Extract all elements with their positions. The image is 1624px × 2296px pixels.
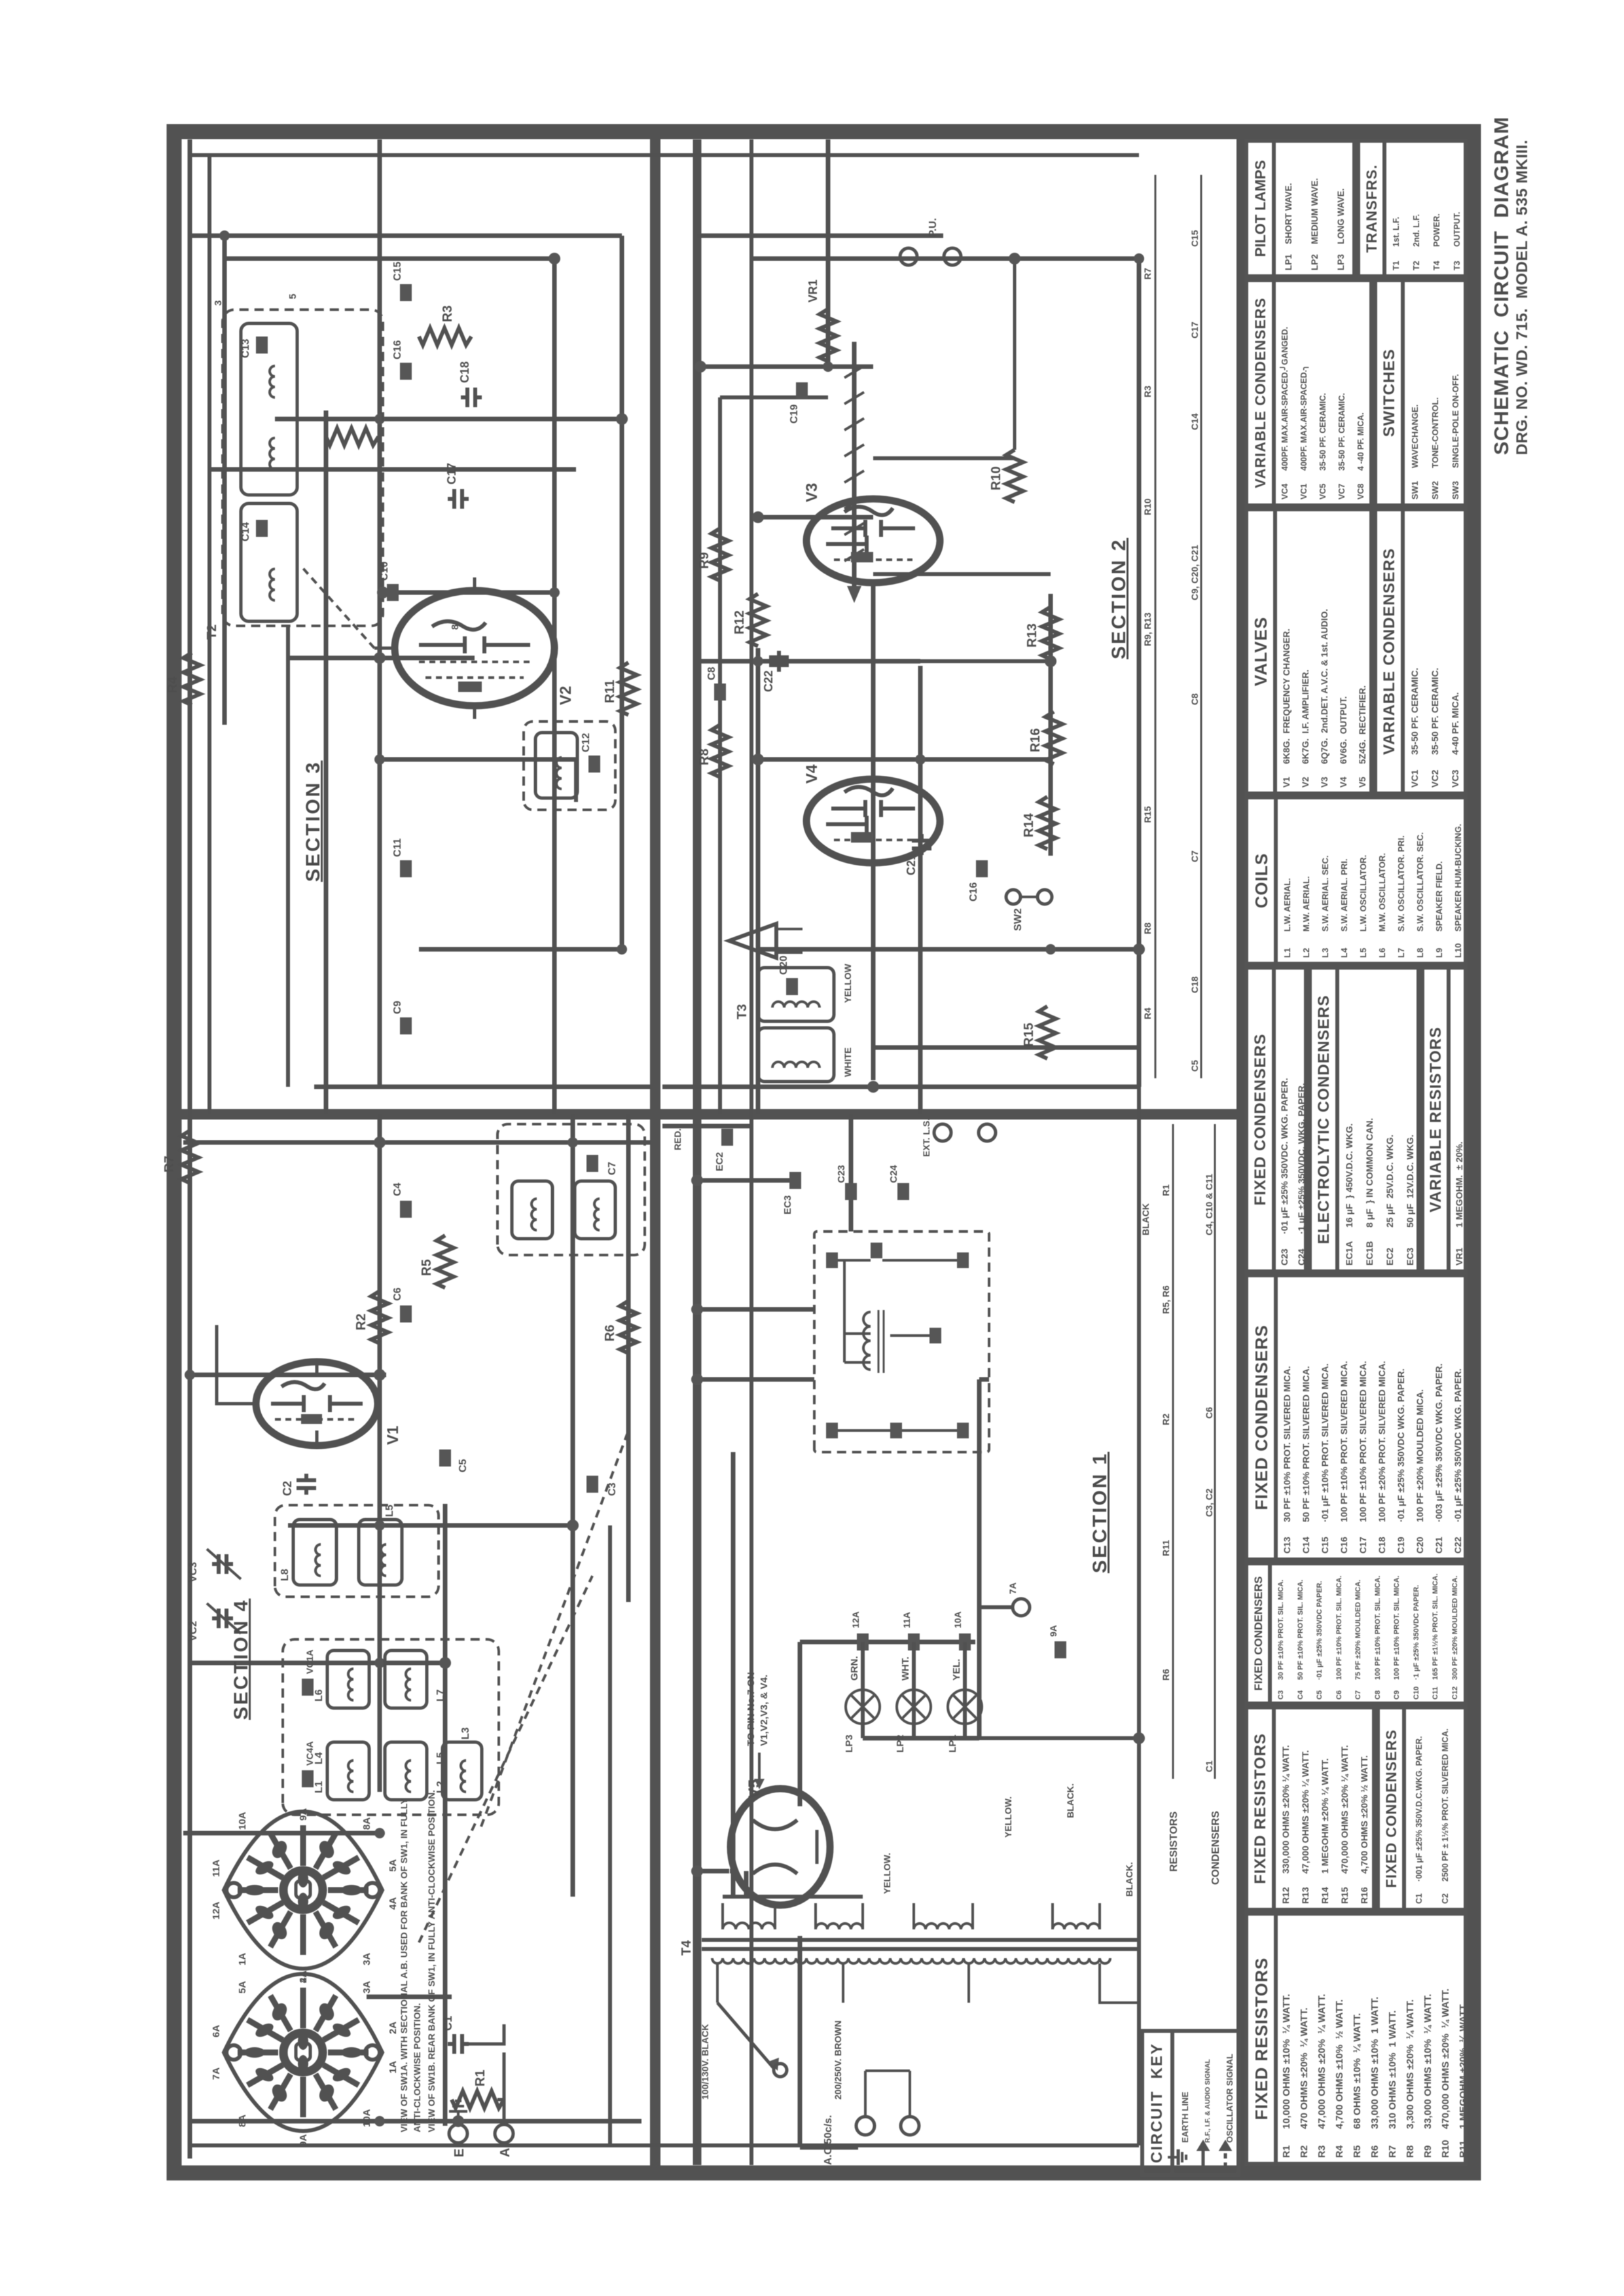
svg-text:C10: C10 bbox=[379, 562, 390, 581]
lamp terminal 12A bbox=[850, 1611, 869, 1650]
wire vertical bbox=[700, 365, 873, 369]
aerial terminal A bbox=[495, 2124, 513, 2157]
wire top rail bbox=[188, 139, 192, 1114]
wire heater rail bbox=[798, 1936, 803, 2147]
wire vertical bbox=[662, 1124, 751, 1129]
resistor R14 bbox=[1022, 797, 1056, 849]
T1A coil box bbox=[535, 733, 577, 798]
svg-text:C18: C18 bbox=[1189, 976, 1200, 993]
svg-text:C4, C10 & C11: C4, C10 & C11 bbox=[1204, 1174, 1214, 1235]
designator index rail resistors left bbox=[1172, 1124, 1174, 1779]
svg-text:C19: C19 bbox=[789, 405, 800, 424]
svg-text:7A: 7A bbox=[1007, 1582, 1018, 1594]
SW1 rear contact pads bbox=[244, 2001, 362, 2104]
svg-text:YELLOW: YELLOW bbox=[842, 963, 853, 1003]
svg-text:C3, C2: C3, C2 bbox=[1204, 1488, 1214, 1517]
wire vertical bbox=[183, 1831, 380, 1836]
wire section2 bottom link bbox=[920, 659, 1051, 663]
outer border frame bbox=[174, 132, 1473, 2173]
svg-text:4A: 4A bbox=[298, 1971, 309, 1983]
svg-text:8: 8 bbox=[450, 625, 461, 630]
parts table: fixed condensers C13-C22 bbox=[1244, 1273, 1468, 1561]
svg-text:R11: R11 bbox=[603, 680, 617, 703]
wire vertical bbox=[873, 1046, 1139, 1050]
svg-text:R3: R3 bbox=[441, 305, 455, 322]
wire left rail section4 bbox=[190, 2143, 1139, 2147]
coil box L8 bbox=[280, 1520, 336, 1585]
divider wire vertical between SECTION 4 and SECTION 3 bbox=[174, 1109, 1240, 1120]
svg-text:200/250V. BROWN: 200/250V. BROWN bbox=[833, 2020, 843, 2100]
wire vertical bbox=[367, 1995, 452, 1999]
parts table: switches bbox=[1373, 278, 1468, 507]
parts table: valves V1-V5 bbox=[1244, 507, 1373, 795]
resistor R8 bbox=[697, 725, 729, 777]
pilot lamp LP3 bbox=[844, 1656, 880, 1753]
wire vertical bbox=[288, 656, 475, 661]
wire transformer to V5 bbox=[744, 1871, 749, 1895]
title block text bbox=[1490, 117, 1513, 455]
svg-text:7A: 7A bbox=[211, 2068, 222, 2080]
wire vertical bbox=[383, 591, 554, 595]
resistor R4 bbox=[166, 653, 200, 705]
tone control switch SW2 bbox=[1006, 890, 1052, 931]
wire anode rail 2 bbox=[718, 397, 722, 1114]
T4 heater winding bbox=[914, 1903, 973, 1929]
svg-text:E: E bbox=[452, 2149, 467, 2157]
circuit key box bbox=[1140, 2029, 1240, 2177]
capacitor C17 bbox=[445, 463, 469, 509]
wire vertical bbox=[288, 1523, 576, 1528]
trimmer condenser VC3 bbox=[188, 1549, 241, 1582]
svg-text:EXT. L.S.: EXT. L.S. bbox=[921, 1118, 931, 1157]
wire screen rail bbox=[620, 236, 624, 949]
svg-text:CONDENSERS: CONDENSERS bbox=[1210, 1811, 1221, 1885]
designator index rail condensers left bbox=[1214, 1124, 1216, 1779]
valve V3 detector bbox=[806, 499, 940, 583]
coil box L6 bbox=[314, 1650, 369, 1708]
wire vertical bbox=[314, 1085, 650, 1089]
oscillator coil assembly 2 (dashed) bbox=[497, 1124, 645, 1255]
earth terminal E bbox=[449, 2101, 467, 2157]
index labels bbox=[1168, 1811, 1221, 1885]
svg-text:VC1A: VC1A bbox=[304, 1650, 315, 1674]
svg-text:1A: 1A bbox=[237, 1953, 248, 1965]
resistor R7 bbox=[162, 1131, 198, 1183]
output transformer T3 secondary box bbox=[758, 1028, 834, 1082]
svg-text:R14: R14 bbox=[1022, 812, 1036, 837]
capacitor C14 blob bbox=[240, 520, 268, 541]
wire AVC rail bbox=[324, 410, 329, 1114]
resistor R15 bbox=[1022, 1006, 1056, 1059]
svg-text:C14: C14 bbox=[240, 522, 251, 541]
perimeter wire right side bbox=[190, 153, 1139, 157]
svg-text:WHT.: WHT. bbox=[900, 1656, 911, 1681]
svg-text:LP2: LP2 bbox=[895, 1734, 906, 1753]
capacitor C18 bbox=[458, 361, 482, 407]
switch linkage dashed diagonal bbox=[481, 1427, 630, 1827]
designator index rail condensers right bbox=[1200, 175, 1202, 1078]
parts table: pilot lamps bbox=[1244, 139, 1356, 278]
svg-text:5: 5 bbox=[287, 294, 298, 299]
wafer switch SW1 front bank bbox=[224, 1812, 382, 1969]
svg-text:V2: V2 bbox=[557, 686, 575, 705]
svg-text:C4: C4 bbox=[392, 1182, 403, 1196]
svg-text:BLACK.: BLACK. bbox=[1065, 1783, 1075, 1818]
trimmer condenser VC4A blob bbox=[302, 1741, 315, 1787]
pilot lamp LP1 bbox=[947, 1659, 982, 1753]
parts table: variable resistors bbox=[1420, 966, 1468, 1273]
wire anode rail bbox=[756, 648, 761, 1114]
svg-text:RED.: RED. bbox=[672, 1129, 683, 1150]
wire bottom rail bbox=[1137, 259, 1142, 1087]
pick-up terminals P.U. bbox=[900, 218, 961, 265]
svg-text:R16: R16 bbox=[1028, 728, 1043, 752]
wire vertical bbox=[419, 947, 622, 952]
svg-text:A.C.50c/s.: A.C.50c/s. bbox=[823, 2115, 834, 2165]
perimeter wire bottom rails bbox=[1137, 1087, 1141, 2145]
svg-text:C13: C13 bbox=[240, 339, 251, 358]
capacitor C19 blob bbox=[789, 382, 808, 424]
wire V5 anode bbox=[731, 1452, 736, 1895]
resistor R2 bbox=[354, 1291, 388, 1343]
coil box L7 osc pri bbox=[512, 1181, 552, 1239]
designator index rail resistors right bbox=[1155, 175, 1157, 1078]
parts table: fixed condensers C23-C24 bbox=[1244, 966, 1308, 1273]
output transformer T3 primary box bbox=[758, 968, 834, 1021]
resistor R10 bbox=[989, 450, 1023, 502]
transformer lead labels bbox=[842, 963, 1151, 1235]
capacitor C13 blob bbox=[240, 337, 268, 358]
svg-text:YELLOW.: YELLOW. bbox=[882, 1853, 892, 1894]
svg-text:C11: C11 bbox=[392, 838, 403, 857]
smoothing terminals blobs bbox=[826, 1243, 969, 1438]
resistor R3 bbox=[419, 305, 471, 345]
svg-text:C16: C16 bbox=[392, 340, 403, 359]
svg-text:R13: R13 bbox=[1025, 623, 1039, 647]
SW1 front contact spokes bbox=[238, 1825, 369, 1955]
wire section4 lower rail bbox=[608, 1525, 612, 2145]
section labels bbox=[230, 1599, 253, 1720]
wire cathode rail bbox=[552, 259, 557, 1114]
T4 rectifier filament winding bbox=[816, 1903, 863, 1929]
wire oscillator rail bbox=[626, 1114, 631, 1602]
svg-text:8A: 8A bbox=[361, 1817, 372, 1830]
svg-text:BLACK: BLACK bbox=[1140, 1203, 1151, 1235]
svg-text:R9, R13: R9, R13 bbox=[1142, 612, 1153, 646]
capacitor C23 blob bbox=[836, 1165, 857, 1200]
svg-text:10A: 10A bbox=[361, 2109, 372, 2127]
svg-text:100/130V. BLACK: 100/130V. BLACK bbox=[700, 2024, 710, 2100]
lamp terminal 11A bbox=[901, 1612, 920, 1650]
svg-text:R3: R3 bbox=[1142, 386, 1153, 397]
svg-text:C18: C18 bbox=[458, 361, 471, 383]
resistor R11 bbox=[603, 663, 637, 715]
valve V4 output bbox=[806, 779, 940, 863]
svg-text:L6: L6 bbox=[314, 1689, 325, 1702]
svg-text:C1: C1 bbox=[1204, 1760, 1214, 1772]
svg-text:V3: V3 bbox=[803, 483, 821, 502]
coil box L3 bbox=[442, 1727, 482, 1800]
condenser index designators bbox=[1189, 230, 1214, 1772]
svg-text:2A: 2A bbox=[388, 2022, 399, 2034]
svg-text:VC3: VC3 bbox=[188, 1562, 199, 1582]
wire section3 into T1A bbox=[574, 759, 578, 802]
parts table: variable condensers VC1-VC3 bbox=[1373, 507, 1468, 795]
wire aerial input bbox=[469, 2024, 504, 2124]
svg-text:R5, R6: R5, R6 bbox=[1161, 1285, 1171, 1314]
svg-text:R6: R6 bbox=[603, 1324, 617, 1341]
terminal 9A blob bbox=[1048, 1625, 1066, 1658]
capacitor C10 blob bbox=[379, 562, 399, 601]
svg-text:C7: C7 bbox=[607, 1161, 618, 1175]
wire smoothing output bbox=[849, 1114, 854, 1231]
svg-text:VIEW OF SW1B. REAR BANK OF SW1: VIEW OF SW1B. REAR BANK OF SW1, IN FULLY… bbox=[426, 1790, 437, 2132]
wire horizontal bbox=[798, 1642, 803, 1806]
node dots bbox=[185, 1137, 578, 2126]
resistor R6 bbox=[603, 1301, 637, 1353]
svg-text:L4: L4 bbox=[314, 1752, 325, 1764]
capacitor C22 bbox=[762, 651, 789, 692]
svg-text:L7: L7 bbox=[435, 1689, 446, 1702]
wire upper rail section3 second bbox=[208, 155, 211, 1114]
svg-text:10A: 10A bbox=[952, 1611, 963, 1628]
svg-text:L3: L3 bbox=[460, 1727, 471, 1740]
colour labels bbox=[672, 1129, 1134, 1897]
svg-text:11A: 11A bbox=[901, 1612, 912, 1628]
svg-text:P.U.: P.U. bbox=[928, 218, 939, 237]
resistor index designators bbox=[1142, 268, 1171, 1681]
valve V5 rectifier bbox=[731, 1789, 830, 1905]
svg-text:YEL.: YEL. bbox=[951, 1659, 962, 1681]
resistor R2 vertical bbox=[326, 428, 378, 445]
svg-text:C16: C16 bbox=[968, 883, 979, 902]
svg-text:R8: R8 bbox=[1142, 922, 1153, 934]
wire section1 7A drop bbox=[979, 1605, 1013, 1609]
wire winding link bbox=[723, 1895, 863, 1899]
svg-text:TO PIN No.7 ON: TO PIN No.7 ON bbox=[746, 1672, 757, 1746]
T4 primary winding bbox=[712, 1958, 1110, 1963]
svg-text:V1: V1 bbox=[384, 1426, 402, 1445]
wire vertical bbox=[697, 234, 943, 238]
capacitor C11 blob bbox=[392, 838, 412, 877]
switch linkage dashed diagonal 2 bbox=[419, 1576, 592, 1942]
parts table: electrolytic condensers bbox=[1308, 966, 1420, 1273]
IF transformer T2 primary box bbox=[241, 323, 297, 495]
capacitor C1 bbox=[441, 2016, 469, 2054]
capacitor C9 blob bbox=[392, 1000, 412, 1034]
svg-text:WHITE: WHITE bbox=[842, 1048, 853, 1077]
resistor R13 bbox=[1025, 607, 1059, 659]
wire horizontal lamp bottom bbox=[977, 1379, 982, 1738]
wire vertical bbox=[700, 659, 920, 664]
wire vertical smoothing feed bbox=[697, 1307, 814, 1312]
svg-text:C2: C2 bbox=[281, 1481, 294, 1496]
wire vertical bbox=[190, 1373, 386, 1377]
capacitor C16 blob bbox=[392, 340, 412, 380]
volume control VR1 bbox=[806, 280, 837, 361]
wire cathode rail bbox=[443, 1504, 448, 2126]
svg-text:LP1: LP1 bbox=[947, 1734, 958, 1753]
resistor R16 bbox=[1028, 712, 1062, 764]
svg-text:R7: R7 bbox=[162, 1156, 177, 1173]
svg-text:C22: C22 bbox=[762, 670, 775, 692]
mains transformer T4 core bbox=[702, 1940, 1139, 1949]
SW1 rear terminal labels bbox=[211, 1971, 399, 2147]
svg-text:11A: 11A bbox=[211, 1859, 222, 1877]
svg-text:5A: 5A bbox=[237, 1981, 248, 1994]
resistor R1 bbox=[452, 2069, 504, 2108]
wire section3 mid rail bbox=[286, 626, 290, 1087]
wafer switch captions bbox=[399, 1790, 437, 2132]
coil box L2 L5 bbox=[385, 1742, 446, 1800]
svg-text:R10: R10 bbox=[1142, 498, 1153, 515]
wire top rail bbox=[188, 1114, 192, 2159]
svg-text:C1: C1 bbox=[441, 2016, 454, 2031]
wire vertical V5 bbox=[730, 1869, 733, 1874]
svg-text:C9: C9 bbox=[392, 1000, 403, 1014]
IF transformer T2 secondary box bbox=[241, 503, 297, 621]
capacitor C8 blob bbox=[706, 666, 726, 701]
capacitor C16 blob bbox=[968, 860, 988, 902]
wire vertical bbox=[190, 1661, 445, 1666]
svg-text:R2: R2 bbox=[354, 1313, 369, 1330]
svg-text:10A: 10A bbox=[237, 1812, 248, 1830]
svg-text:L1: L1 bbox=[314, 1781, 325, 1793]
svg-text:V1,V2,V3, & V4.: V1,V2,V3, & V4. bbox=[759, 1675, 770, 1746]
svg-text:VR1: VR1 bbox=[806, 280, 820, 302]
svg-text:C17: C17 bbox=[445, 463, 458, 484]
svg-text:C14: C14 bbox=[1189, 413, 1200, 430]
T4 dial lamp winding bbox=[1053, 1903, 1100, 1929]
capacitor C6 blob bbox=[392, 1287, 412, 1322]
svg-text:C9, C20, C21: C9, C20, C21 bbox=[1189, 545, 1200, 600]
ext speaker terminals bbox=[921, 1118, 996, 1157]
svg-text:LP3: LP3 bbox=[844, 1734, 855, 1753]
oscillator coil screened assembly (dashed) bbox=[275, 1505, 439, 1597]
circuit key oscillator dashed line symbol bbox=[1221, 2143, 1229, 2168]
svg-text:R4: R4 bbox=[166, 676, 180, 693]
svg-text:R9: R9 bbox=[697, 552, 712, 569]
wire grid rail bbox=[918, 666, 923, 1114]
svg-text:BLACK.: BLACK. bbox=[1124, 1862, 1134, 1897]
wire lamp to bottom bbox=[979, 1736, 1139, 1740]
wire vertical bbox=[380, 757, 576, 762]
svg-text:3: 3 bbox=[213, 301, 224, 306]
svg-text:C23: C23 bbox=[836, 1165, 847, 1183]
svg-text:R4: R4 bbox=[1142, 1008, 1153, 1019]
svg-text:R10: R10 bbox=[989, 466, 1003, 490]
parts table: fixed condensers C1-C2 bbox=[1376, 1705, 1468, 1912]
svg-text:C5: C5 bbox=[458, 1459, 469, 1472]
svg-text:SW2: SW2 bbox=[1013, 908, 1024, 931]
svg-text:C7: C7 bbox=[1189, 850, 1200, 862]
svg-text:GRN.: GRN. bbox=[849, 1656, 860, 1681]
selector labels bbox=[700, 2020, 843, 2100]
wire vertical bbox=[758, 515, 873, 520]
mains voltage selector arm bbox=[717, 2003, 787, 2077]
wire AVC rail bbox=[378, 1114, 382, 1792]
VR1 slider arrow (hatched) bbox=[844, 342, 864, 603]
parts table: transformers bbox=[1356, 139, 1468, 278]
svg-text:VC2: VC2 bbox=[188, 1621, 199, 1641]
wire vertical bbox=[190, 234, 622, 238]
parts table: fixed condensers C3-C12 bbox=[1244, 1561, 1468, 1705]
wire vertical trunk bbox=[183, 1140, 650, 1145]
wire vertical bbox=[697, 1178, 800, 1183]
IF transformer T2 screened assembly (dashed) bbox=[223, 310, 383, 626]
svg-text:A: A bbox=[498, 2148, 513, 2157]
tables strip top border bbox=[1236, 132, 1244, 2173]
svg-text:C17: C17 bbox=[1189, 321, 1200, 338]
parts table: fixed resistors R1-R11 bbox=[1244, 1912, 1468, 2166]
svg-text:3A: 3A bbox=[361, 1953, 372, 1965]
wire section1 lamp chain bbox=[861, 1642, 865, 1738]
smoothing wires bbox=[838, 1260, 957, 1430]
wire lamp return bbox=[863, 1736, 979, 1741]
svg-text:YELLOW.: YELLOW. bbox=[1003, 1796, 1013, 1838]
trimmer condenser VC2 bbox=[188, 1603, 241, 1641]
valve V1 frequency changer bbox=[256, 1362, 378, 1446]
svg-text:RESISTORS: RESISTORS bbox=[1168, 1812, 1180, 1872]
svg-text:C15: C15 bbox=[392, 262, 403, 281]
node dots extra bbox=[374, 253, 1145, 2127]
heater feed arrow bbox=[754, 1753, 765, 1789]
svg-text:C24: C24 bbox=[888, 1165, 899, 1183]
wire vertical bbox=[662, 1085, 1139, 1089]
loudspeaker bbox=[729, 924, 803, 958]
svg-text:C15: C15 bbox=[1189, 230, 1200, 247]
capacitor C2 bbox=[281, 1474, 316, 1496]
wire vertical bbox=[275, 417, 622, 422]
circuit key signal line symbol bbox=[1199, 2143, 1207, 2168]
resistor R9 bbox=[697, 528, 729, 581]
condenser EC3 blob bbox=[782, 1172, 801, 1214]
smoothing choke L9 bbox=[844, 1310, 884, 1373]
capacitor C12 blob bbox=[581, 733, 600, 773]
svg-text:9A: 9A bbox=[1048, 1625, 1058, 1637]
svg-text:12A: 12A bbox=[211, 1901, 222, 1920]
svg-text:T3: T3 bbox=[735, 1004, 749, 1019]
wire section2 extra vertical bbox=[873, 456, 1015, 460]
svg-text:5A: 5A bbox=[388, 1859, 399, 1872]
smoothing arrangement screened box (dashed) bbox=[814, 1231, 989, 1452]
svg-text:T2: T2 bbox=[205, 625, 219, 640]
lamp terminal 10A bbox=[952, 1611, 971, 1650]
svg-text:8A: 8A bbox=[237, 2115, 248, 2127]
grid cap wire of V1 bbox=[217, 1325, 256, 1404]
svg-text:C5: C5 bbox=[1189, 1060, 1200, 1072]
parts table: fixed resistors R12-R16 bbox=[1244, 1705, 1376, 1912]
svg-text:R7: R7 bbox=[1142, 268, 1153, 280]
heater feed note bbox=[746, 1672, 770, 1746]
svg-text:12A: 12A bbox=[850, 1611, 861, 1628]
svg-text:VC4A: VC4A bbox=[304, 1741, 315, 1766]
svg-text:R1: R1 bbox=[473, 2069, 488, 2086]
coil box L6 osc sec bbox=[575, 1181, 615, 1239]
HT supply bus bbox=[693, 139, 702, 2165]
coil box L7 bbox=[385, 1650, 446, 1708]
coil box L1 L4 bbox=[314, 1742, 369, 1800]
wire IFT rail bbox=[223, 236, 227, 725]
wire vertical bbox=[979, 1377, 989, 1382]
wire vertical bbox=[758, 757, 1051, 762]
svg-text:R6: R6 bbox=[1161, 1669, 1171, 1681]
svg-text:R1: R1 bbox=[1161, 1184, 1171, 1196]
svg-text:EC3: EC3 bbox=[782, 1195, 793, 1214]
aerial coil screened assembly (dashed) bbox=[283, 1639, 499, 1815]
svg-text:R2: R2 bbox=[1161, 1413, 1171, 1425]
capacitor C24 blob bbox=[888, 1165, 909, 1200]
